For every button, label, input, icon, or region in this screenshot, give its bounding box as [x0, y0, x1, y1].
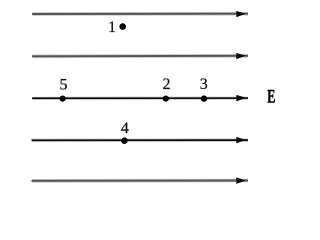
- field line 2 (wire): [32, 54, 248, 58]
- svg-text:2: 2: [163, 76, 171, 93]
- arrowhead of field line 5: [236, 177, 246, 184]
- point 4 dot (node 4): [121, 137, 128, 144]
- svg-text:E: E: [267, 87, 275, 107]
- label 3: [200, 76, 208, 93]
- label 4: [121, 120, 129, 137]
- svg-text:3: 3: [200, 76, 208, 93]
- label 2: [163, 76, 171, 93]
- field line 1 (wire): [32, 12, 248, 16]
- field line 4 (wire, through point 4): [32, 139, 249, 142]
- svg-text:4: 4: [121, 120, 129, 137]
- label E (field name): [267, 87, 275, 107]
- svg-text:5: 5: [60, 77, 68, 94]
- point 3 dot (node 3): [201, 95, 207, 101]
- svg-text:1: 1: [108, 19, 116, 36]
- arrowhead of field line 3: [236, 95, 246, 102]
- field line 3 (wire, through points 5,2,3): [32, 97, 248, 100]
- label 1: [108, 19, 116, 36]
- label 5: [60, 77, 68, 94]
- arrowhead of field line 2: [236, 53, 245, 59]
- arrowhead of field line 4: [236, 137, 246, 144]
- point 2 dot (node 2): [163, 96, 169, 102]
- field line 5 (wire): [32, 179, 249, 183]
- point 1 dot (node 1): [119, 23, 126, 30]
- arrowhead of field line 1: [236, 11, 245, 17]
- point 5 dot (node 5): [60, 96, 66, 102]
